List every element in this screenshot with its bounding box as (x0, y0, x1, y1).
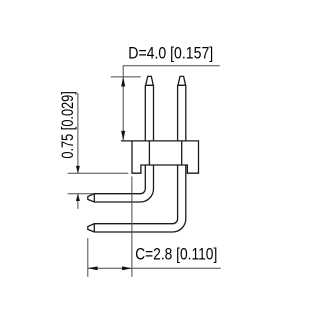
svg-text:D=4.0 [0.157]: D=4.0 [0.157] (128, 45, 213, 63)
svg-text:C=2.8 [0.110]: C=2.8 [0.110] (135, 246, 217, 264)
svg-text:0.75 [0.029]: 0.75 [0.029] (59, 91, 77, 158)
